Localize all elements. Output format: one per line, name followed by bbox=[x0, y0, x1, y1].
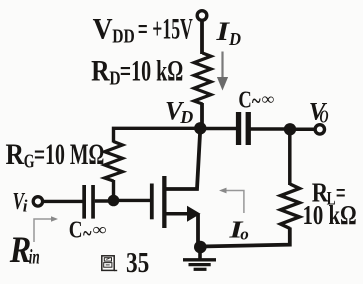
label RD=10 kOhm bbox=[91, 55, 183, 90]
wire RG to gate node bbox=[112, 180, 115, 201]
svg-text:DD: DD bbox=[112, 26, 135, 48]
label ID bbox=[215, 17, 241, 49]
label C2 ~infinity bbox=[238, 88, 274, 115]
wire VD rail left and down to RG bbox=[114, 128, 201, 142]
label VO bbox=[309, 99, 329, 127]
svg-text:~: ~ bbox=[252, 89, 261, 115]
svg-text:D: D bbox=[179, 107, 193, 127]
svg-text:o: o bbox=[240, 225, 249, 244]
label RL= bbox=[312, 177, 346, 209]
svg-text:R: R bbox=[91, 55, 110, 88]
label Rin bbox=[9, 230, 40, 271]
svg-text:C: C bbox=[238, 88, 251, 114]
wire output node to RL bbox=[288, 129, 292, 185]
wire drain to VD bbox=[164, 128, 200, 189]
wire C2 to output node bbox=[251, 127, 291, 131]
svg-text:in: in bbox=[29, 244, 40, 268]
label VD bbox=[165, 97, 193, 128]
wire output node to VO bbox=[290, 128, 315, 132]
label RG=10 MOhm bbox=[6, 138, 105, 173]
terminal VO bbox=[315, 125, 324, 134]
current arrow Rin bbox=[34, 216, 58, 242]
node output bbox=[284, 123, 296, 135]
svg-text:= +15V: = +15V bbox=[138, 12, 193, 45]
svg-text:10 kΩ: 10 kΩ bbox=[303, 200, 357, 230]
node gate bbox=[108, 195, 120, 207]
svg-text:35: 35 bbox=[126, 247, 149, 279]
resistor RL bbox=[281, 184, 300, 229]
wire RD to node VD bbox=[200, 103, 204, 128]
ground bbox=[183, 252, 216, 269]
wire source with arrow to ground node bbox=[164, 206, 201, 247]
current arrow Io bbox=[219, 188, 244, 213]
svg-text:∞: ∞ bbox=[262, 89, 275, 108]
resistor RD bbox=[194, 53, 211, 104]
capacitor C1 bbox=[82, 185, 95, 219]
node VD bbox=[194, 122, 206, 134]
wire RL bottom to ground node bbox=[200, 228, 289, 247]
svg-text:V: V bbox=[93, 12, 113, 45]
wire Vi to C1 bbox=[43, 200, 83, 203]
label C1 ~infinity bbox=[69, 217, 107, 247]
label Vi bbox=[13, 189, 28, 216]
wire VDD to RD bbox=[200, 21, 204, 55]
current arrow ID bbox=[217, 52, 228, 91]
svg-text:D: D bbox=[228, 29, 241, 49]
wire gate node to gate bar bbox=[114, 199, 151, 202]
svg-text:O: O bbox=[320, 106, 329, 126]
transistor Q1 channel bar bbox=[162, 176, 166, 228]
wire VD to C2 bbox=[200, 127, 236, 131]
svg-text:∞: ∞ bbox=[93, 220, 107, 239]
svg-text:I: I bbox=[215, 17, 230, 46]
caption symbol Tu (figure) bbox=[102, 256, 117, 271]
label VDD = +15V bbox=[93, 12, 193, 47]
svg-text:~: ~ bbox=[83, 221, 92, 247]
svg-text:=10 kΩ: =10 kΩ bbox=[120, 55, 184, 88]
svg-text:i: i bbox=[23, 197, 28, 216]
transistor Q1 gate bar bbox=[150, 184, 154, 220]
label Io bbox=[228, 217, 249, 243]
resistor RG bbox=[105, 142, 123, 182]
svg-text:R: R bbox=[6, 138, 25, 171]
node ground bbox=[194, 241, 207, 254]
svg-text:C: C bbox=[69, 217, 83, 243]
terminal Vi bbox=[33, 197, 42, 206]
wire C1 to gate node bbox=[95, 199, 114, 202]
svg-text:=10 MΩ: =10 MΩ bbox=[34, 138, 105, 171]
capacitor C2 bbox=[236, 112, 251, 145]
terminal VDD bbox=[197, 11, 207, 21]
